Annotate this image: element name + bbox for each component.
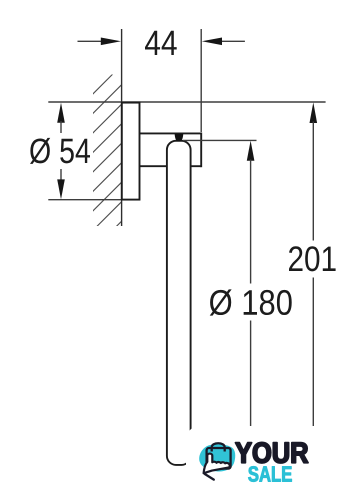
right extension line of dim 44 — [200, 29, 202, 132]
logo hand cursor — [204, 454, 230, 474]
logo text SALE — [248, 466, 291, 481]
dim 44 dimension line left part (arrow outside pointing right) — [78, 38, 122, 46]
holder arm right edge — [200, 133, 202, 168]
top extension line (datum for dim 201 and plate top) — [48, 101, 325, 103]
dim 201 text — [289, 246, 336, 271]
logo text YOUR — [236, 442, 309, 463]
holder arm top edge — [140, 132, 202, 134]
dim 44 dimension line right part (arrow outside pointing left) — [202, 38, 245, 46]
dim 180 dimension line with arrows — [247, 141, 255, 466]
dim 54 text — [30, 138, 90, 164]
dim 180 text — [210, 289, 292, 315]
ring-to-arm joint (black detail) — [175, 134, 184, 141]
logo white card — [186, 426, 360, 492]
wall plate (rosette, side view) — [122, 103, 140, 200]
dim 44 text — [145, 31, 177, 55]
logo shopping bag — [207, 443, 231, 468]
dim 54 dimension line with arrows — [57, 103, 65, 200]
wall line (also left extension line of dim 44) — [121, 29, 123, 226]
dim 201 dimension line with arrows — [310, 102, 318, 465]
top extension line of dim 180 — [183, 139, 257, 141]
holder arm bottom edge — [140, 165, 202, 167]
logo teal blob — [199, 444, 235, 471]
towel ring (side view capsule) — [167, 141, 191, 465]
wall hatching — [85, 58, 129, 258]
logo hand wrist stroke — [205, 474, 214, 480]
bottom extension line of dim 54 — [48, 199, 125, 201]
